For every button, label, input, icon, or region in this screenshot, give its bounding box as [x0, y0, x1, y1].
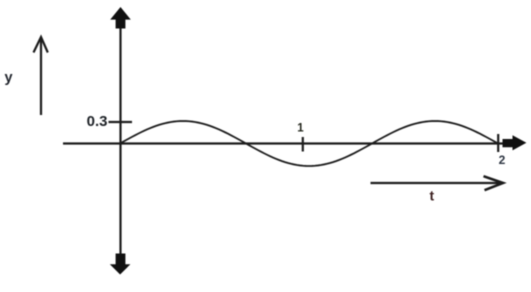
- svg-text:0.3: 0.3: [87, 113, 108, 130]
- sine curve y=0.3sin: [120, 121, 498, 166]
- tick mark 1 on t-axis: [302, 137, 304, 152]
- svg-text:2: 2: [499, 153, 506, 167]
- svg-text:y: y: [5, 70, 13, 86]
- y-axis bottom block arrow: [110, 254, 131, 275]
- t-axis right block arrow: [503, 135, 527, 150]
- t direction arrow shaft: [371, 182, 503, 184]
- tick mark 0.3 on y-axis: [109, 121, 133, 123]
- y-axis top block arrow: [110, 7, 131, 29]
- y direction arrow shaft: [40, 38, 42, 116]
- tick mark 2 on t-axis: [497, 134, 499, 152]
- y direction arrow head: [34, 37, 48, 53]
- svg-text:1: 1: [297, 123, 304, 135]
- y-axis vertical line: [119, 26, 121, 255]
- t direction arrow head: [484, 176, 504, 190]
- svg-text:t: t: [430, 188, 435, 204]
- t-axis horizontal line: [63, 142, 504, 144]
